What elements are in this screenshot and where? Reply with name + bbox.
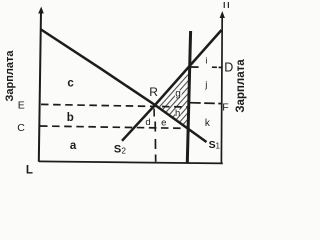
svg-text:a: a (70, 140, 77, 152)
thick vertical allocation line (187, 31, 190, 163)
svg-text:II: II (223, 1, 231, 10)
svg-text:j: j (204, 80, 207, 91)
dashed level line D segment 3 (tick into axis) (219, 66, 222, 68)
left axis arrowhead (38, 7, 44, 14)
right vertical axis (wage axis country II) (220, 16, 223, 164)
dashed level line F segment 3 (tick into axis) (218, 103, 221, 105)
dashed vertical below R top stub (153, 109, 155, 117)
svg-text:L: L (26, 165, 33, 175)
dashed level line D segment 2 (212, 66, 217, 68)
dashed vertical below R segment 2 (154, 139, 156, 149)
svg-text:h: h (175, 108, 180, 119)
dashed level line E through R (41, 104, 189, 107)
svg-text:2: 2 (121, 147, 126, 156)
bottom axis L (39, 161, 223, 163)
svg-text:1: 1 (215, 142, 220, 151)
svg-text:R: R (149, 85, 158, 99)
dashed vertical below R segment 3 (155, 155, 157, 162)
region label g (white halo over hatch) (174, 90, 182, 98)
supply line sloping up (from S2 to right axis) (122, 30, 222, 141)
svg-text:C: C (17, 122, 25, 134)
svg-text:i: i (205, 56, 207, 66)
svg-text:e: e (161, 118, 166, 129)
demand line sloping down (ends at S1) (41, 30, 207, 143)
svg-text:c: c (67, 78, 74, 90)
dashed vertical below R segment 1 (154, 122, 156, 132)
svg-text:Зарплата: Зарплата (4, 50, 16, 102)
left vertical axis (wage axis country I) (39, 11, 41, 162)
svg-text:F: F (222, 101, 228, 113)
hatched gain triangle fill (150, 60, 195, 135)
svg-text:Зарплата: Зарплата (235, 59, 247, 113)
svg-text:d: d (145, 117, 150, 128)
region label h (white halo over hatch) (174, 109, 181, 116)
svg-text:D: D (224, 60, 233, 74)
dashed level line F segment 1 (190, 102, 201, 104)
dashed level line C (40, 126, 183, 128)
dashed level line D segment 1 (191, 66, 199, 68)
svg-text:b: b (67, 112, 74, 124)
svg-text:E: E (18, 99, 25, 111)
dashed level line F segment 2 (204, 102, 215, 104)
svg-text:S: S (114, 143, 121, 155)
right axis arrowhead (220, 11, 225, 18)
svg-text:g: g (175, 88, 181, 99)
